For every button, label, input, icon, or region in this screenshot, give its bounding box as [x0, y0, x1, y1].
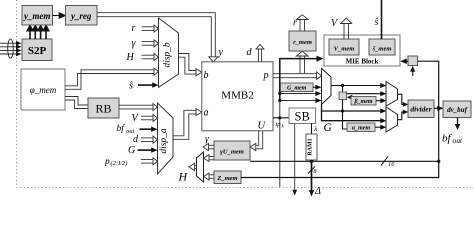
register square right (into MIE)	[408, 56, 418, 66]
svg-text:G: G	[324, 122, 333, 134]
junction dots on right vertical	[437, 160, 440, 163]
wire: phi_mem to disp_b input (double line)	[65, 70, 154, 90]
svg-text:divider: divider	[410, 105, 431, 114]
block dv_buf	[443, 101, 471, 118]
svg-text:H: H	[126, 52, 135, 63]
wire: big mux bottom branch (G net)	[322, 104, 382, 120]
wire: thick line to MIE block left input	[280, 59, 317, 101]
svg-text:γ: γ	[205, 135, 209, 145]
junction dot RAM1 dropper / 16 bus	[310, 160, 313, 163]
mux trap2	[386, 107, 398, 132]
block gammaU_mem	[214, 141, 250, 160]
svg-text:y_mem: y_mem	[23, 11, 51, 21]
wire: gammaU_mem lower-left to H mux	[209, 157, 214, 160]
block S2P	[22, 39, 52, 61]
svg-text:8: 8	[314, 169, 317, 175]
svg-text:S2P: S2P	[28, 45, 47, 57]
wire: y_mem to y_reg	[53, 13, 66, 18]
block alpha_mem	[347, 123, 375, 132]
svg-text:MIE Block: MIE Block	[346, 58, 379, 66]
svg-text:RAM1: RAM1	[308, 138, 314, 155]
wire: RB to disp_a (double line with open arrow)	[119, 105, 153, 109]
wire: trap1 output to divider	[398, 94, 404, 104]
block Z_mem	[214, 171, 241, 184]
svg-text:G_mem: G_mem	[287, 86, 307, 92]
block MMB2	[202, 62, 273, 131]
wire: G_mem output to big mux	[313, 86, 316, 88]
wire: s_hat vertical into s_mem	[381, 0, 383, 39]
stub arrow up into square bottom	[412, 70, 414, 76]
input bf_out to disp_a (solid)	[140, 128, 152, 130]
svg-text:16: 16	[388, 161, 395, 168]
svg-text:γU_mem: γU_mem	[220, 149, 244, 156]
input d to disp_a	[141, 138, 153, 142]
svg-text:p: p	[104, 157, 110, 167]
input arrowheads into S2P	[16, 41, 22, 56]
wire: Z bus from Z_mem to right vertical up to MIE square	[241, 61, 439, 177]
wire: square down to alpha_mem	[343, 100, 348, 130]
svg-text:Δ: Δ	[314, 186, 321, 197]
svg-text:H: H	[178, 170, 189, 184]
input H to disp_b	[142, 55, 155, 59]
svg-text:RB: RB	[95, 102, 111, 116]
wire: 16-bit bus from gammaU_mem to right vertical	[250, 160, 439, 162]
svg-text:ŝ: ŝ	[375, 17, 379, 28]
svg-text:disp_b: disp_b	[163, 42, 173, 68]
wire: vertical feed with taps to big mux	[280, 94, 316, 188]
svg-text:SB: SB	[295, 110, 310, 124]
input G to disp_a (solid)	[138, 149, 152, 151]
svg-text:k: k	[282, 125, 285, 130]
mux disp_b	[159, 18, 179, 87]
input V to disp_a	[141, 116, 153, 120]
block y_reg	[66, 6, 98, 26]
open arrowhead phi wire into disp_b	[154, 68, 159, 75]
output d arrow from MMB2 top	[258, 49, 261, 62]
svg-text:β_mem: β_mem	[353, 99, 372, 105]
svg-text:ŝ_mem: ŝ_mem	[372, 46, 392, 53]
wire: SB to RAM1	[311, 124, 313, 135]
wire: p branch up to r_mem (open arrow)	[300, 56, 305, 74]
wire: U from MMB2 bottom to gammaU_mem	[256, 131, 263, 149]
wire: Z_mem left to H mux	[209, 175, 214, 179]
svg-text:y_reg: y_reg	[70, 11, 92, 21]
svg-text:(2:I/2): (2:I/2)	[111, 160, 128, 167]
svg-text:r: r	[132, 23, 136, 34]
svg-text:a: a	[204, 108, 209, 119]
block beta_mem	[351, 97, 376, 106]
bus slash 8	[308, 167, 315, 174]
junction dots on vertical feed	[278, 92, 281, 95]
wire: phi_mem to RB (double line)	[65, 97, 88, 109]
output V arrow from V_mem	[344, 24, 349, 40]
wire: SB bottom-left drop to bottom output	[294, 124, 296, 191]
register square node	[339, 92, 347, 100]
wires: S2P to y_mem (4 vertical arrows)	[27, 26, 48, 39]
wire: big mux output line to trap1	[331, 85, 381, 87]
block RAM1	[306, 134, 317, 160]
svg-text:γ: γ	[132, 38, 137, 49]
input p(2:I/2) to disp_a	[141, 160, 153, 164]
mux disp_a	[158, 103, 174, 174]
wire: disp_a output to a input of MMB2	[173, 110, 196, 139]
svg-text:α_mem: α_mem	[352, 126, 371, 132]
input r to disp_b	[142, 27, 155, 31]
block s_hat_mem	[369, 39, 395, 55]
chip boundary dotted border	[17, 0, 474, 188]
svg-text:ŝ: ŝ	[129, 80, 133, 91]
wire: external inputs into S2P	[0, 43, 19, 54]
bus slash 16	[381, 157, 388, 166]
svg-text:disp_a: disp_a	[159, 128, 169, 154]
block y_mem	[22, 6, 53, 26]
block MIE	[324, 35, 400, 66]
svg-text:d: d	[247, 47, 253, 58]
svg-text:r_mem: r_mem	[293, 39, 312, 46]
svg-text:G: G	[128, 145, 135, 156]
svg-text:V_mem: V_mem	[334, 46, 355, 53]
junction dot ip_k / feed vertical	[278, 116, 281, 119]
block G_mem	[281, 83, 314, 92]
bundle ellipse on S2P inputs	[8, 39, 14, 58]
wire: y bus from y_reg to MMB2 top (double line)	[97, 13, 215, 57]
svg-text:MMB2: MMB2	[221, 90, 253, 102]
output H arrow from mux	[195, 165, 197, 169]
mux H output	[197, 152, 204, 182]
wire: square output to trap1	[347, 93, 382, 95]
svg-text:out: out	[453, 136, 464, 145]
svg-text:Z_mem: Z_mem	[216, 175, 237, 182]
wire: stub from junction down to register square	[342, 86, 344, 93]
svg-text:p: p	[263, 70, 269, 81]
svg-text:b: b	[204, 70, 209, 81]
block divider	[408, 100, 434, 118]
wire: alpha_mem output to trap2	[375, 126, 381, 128]
svg-text:V: V	[132, 113, 140, 124]
svg-text:bf: bf	[442, 133, 453, 145]
wire: p bus from MMB2 to big mux (open arrow)	[273, 74, 317, 78]
block V_mem	[329, 39, 359, 55]
mux big (p selector)	[322, 68, 332, 104]
svg-text:r: r	[293, 18, 297, 29]
wire: trap2 output to divider	[398, 112, 404, 120]
svg-text:y: y	[218, 47, 224, 58]
output gamma arrow from gammaU_mem	[209, 145, 215, 149]
wire: RAM1 down to bottom output Delta	[311, 160, 313, 192]
arrow from square into MIE right edge	[406, 60, 408, 62]
svg-text:V: V	[331, 18, 339, 29]
input gamma to disp_b	[142, 42, 155, 46]
block phi_mem	[21, 69, 65, 110]
stub arrow from beta_mem into square	[349, 96, 351, 98]
output r arrow from r_mem top	[300, 20, 305, 32]
input s_hat to disp_b (solid thick)	[138, 84, 153, 86]
svg-text:ip: ip	[276, 121, 282, 128]
wire: disp_b output to b input of MMB2	[179, 54, 197, 75]
wire: divider to dv_buf	[434, 107, 438, 109]
svg-text:bf: bf	[117, 123, 126, 134]
wire: dv_buf output down bf_out	[457, 118, 459, 126]
svg-text:dv_buf: dv_buf	[447, 106, 468, 114]
wire: beta_mem output to trap1	[376, 100, 381, 102]
svg-text:d: d	[133, 134, 139, 145]
open arrowhead y into MMB2	[209, 57, 218, 62]
wire: ip_k from MMB2 to SB	[273, 117, 289, 119]
svg-text:λ: λ	[313, 124, 318, 133]
block RB	[88, 98, 119, 118]
block SB	[289, 108, 316, 124]
mux trap1	[386, 82, 398, 107]
block r_mem	[289, 31, 316, 51]
svg-text:φ_mem: φ_mem	[30, 85, 57, 95]
